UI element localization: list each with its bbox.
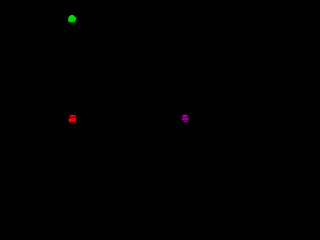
LED D3 (purple, lit) node GND indicator: [182, 114, 189, 123]
LED D2 (red, lit) node OUT indicator: [68, 114, 76, 123]
LED D1 (green, lit) node VCC indicator: [68, 15, 77, 23]
